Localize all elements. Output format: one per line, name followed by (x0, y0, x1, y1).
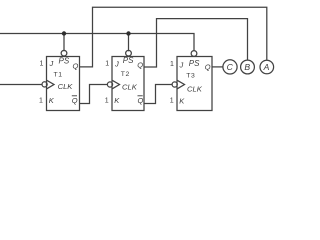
svg-text:A: A (263, 62, 270, 72)
svg-text:1: 1 (105, 60, 109, 67)
wire T2 Q up to second rail to terminal B (144, 19, 248, 67)
svg-text:CLK: CLK (58, 82, 74, 91)
svg-text:CLK: CLK (122, 83, 138, 92)
wire T3 Q to terminal C (212, 66, 223, 68)
T3 preset bubble (191, 51, 197, 57)
flip-flop T1 body (47, 57, 80, 111)
svg-text:T3: T3 (186, 73, 195, 80)
svg-text:PS: PS (123, 56, 134, 65)
svg-text:B: B (244, 62, 250, 72)
T2 clock bubble (107, 82, 112, 87)
svg-text:K: K (49, 96, 55, 105)
output terminal B circle (241, 60, 255, 74)
svg-text:PS: PS (189, 59, 200, 68)
wire T1 Q up to top rail to terminal A (80, 7, 267, 67)
svg-text:J: J (114, 60, 119, 69)
output terminal C circle (223, 60, 237, 74)
T1 clock edge triangle (47, 80, 55, 89)
svg-text:T2: T2 (121, 71, 130, 78)
T2 pin label Qbar (138, 96, 144, 105)
wire stub PS line to T2 preset bubble (128, 34, 130, 52)
T1 pin label Qbar (72, 96, 78, 105)
svg-text:CLK: CLK (187, 85, 203, 94)
svg-text:J: J (49, 59, 54, 68)
svg-text:1: 1 (40, 60, 44, 67)
wire PS preset net from left edge to T3 preset (0, 34, 194, 52)
svg-text:1: 1 (105, 98, 109, 105)
junction dot at T1 preset tap (62, 31, 66, 35)
wire clock input from left edge to T1 clock bubble (0, 84, 42, 86)
svg-text:Q: Q (205, 63, 211, 72)
svg-text:J: J (179, 61, 184, 70)
T1 preset bubble (61, 50, 67, 56)
svg-text:PS: PS (59, 57, 70, 66)
svg-text:C: C (227, 62, 234, 72)
wire T2 Qbar jog to T3 clock bubble (144, 85, 172, 104)
output terminal A circle (260, 60, 274, 74)
T3 clock edge triangle (177, 80, 185, 89)
T1 clock bubble (42, 82, 47, 87)
svg-text:1: 1 (170, 61, 174, 68)
wire stub PS line to T1 preset bubble (63, 34, 65, 52)
junction dot at T2 preset tap (126, 31, 130, 35)
svg-text:Q: Q (138, 96, 144, 105)
svg-text:K: K (114, 96, 120, 105)
svg-text:1: 1 (39, 98, 43, 105)
svg-text:1: 1 (170, 98, 174, 105)
svg-text:Q: Q (72, 96, 78, 105)
flip-flop T3 body (177, 57, 212, 111)
T3 clock bubble (172, 82, 177, 87)
svg-text:T1: T1 (54, 72, 63, 79)
flip-flop T2 body (112, 57, 144, 111)
svg-text:Q: Q (73, 61, 79, 70)
T2 clock edge triangle (112, 80, 120, 89)
wire T1 Qbar jog to T2 clock bubble (80, 85, 108, 104)
svg-text:Q: Q (137, 61, 143, 70)
svg-text:K: K (179, 97, 185, 106)
T2 preset bubble (126, 50, 132, 56)
